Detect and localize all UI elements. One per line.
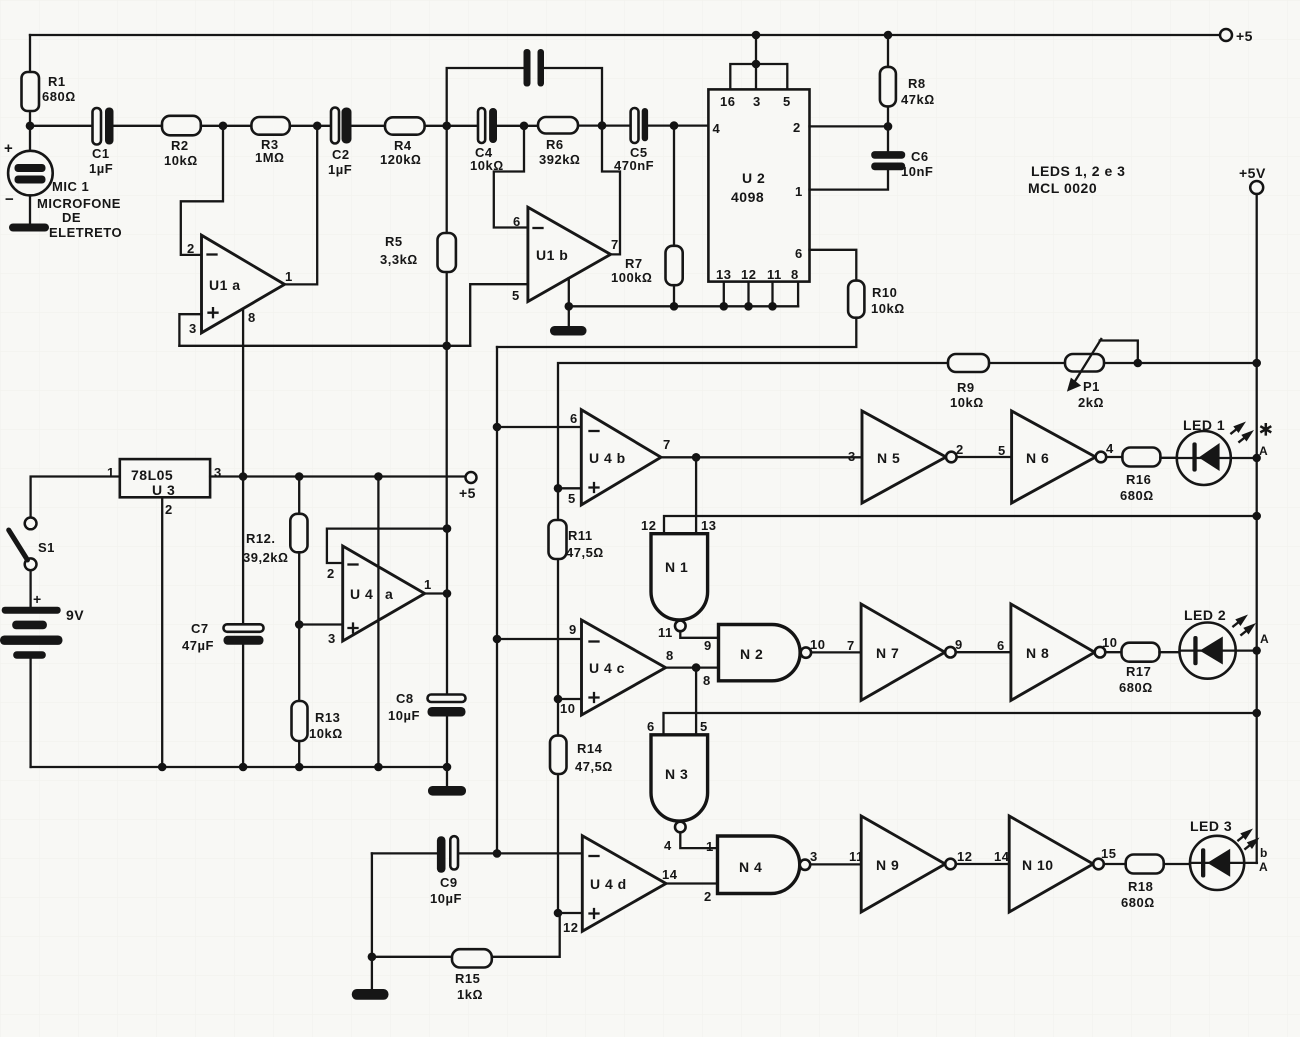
wire: bus2 y=516 (N1 pin12 to +5V rail) [664,516,1257,534]
resistor R5 [380,126,456,346]
wire: U1a pin8 to +5 [242,309,244,477]
svg-text:N 4: N 4 [739,859,762,875]
node U4b pin6 junction [493,423,502,432]
svg-text:C8: C8 [396,691,414,706]
svg-text:C9: C9 [440,875,458,890]
wire: U1b pin5 to reference line [470,284,528,346]
NAND N4 [704,836,818,904]
svg-text:12: 12 [563,920,578,935]
wire: +5V right rail [1256,194,1258,863]
wire: R18 to LED3 [1164,863,1190,865]
svg-text:11: 11 [658,625,673,640]
op-amp U1a [187,235,293,336]
wire: U2 pin2 to R8/C6 [810,125,889,127]
wire: U4b pin5 stub [558,487,581,489]
svg-text:A: A [1260,632,1269,646]
svg-text:15: 15 [1101,846,1116,861]
svg-text:−: − [5,191,14,208]
node pin12 ground [744,302,753,311]
svg-text:6: 6 [570,411,578,426]
node U3 pin2 ground [158,763,167,772]
LED3 [1190,818,1268,890]
node R13 ground [295,763,304,772]
wire: U4d pin12 stub [558,912,582,914]
svg-text:+5: +5 [1236,28,1253,44]
node +5 rail / R8 [884,31,893,40]
svg-text:N 6: N 6 [1026,450,1049,466]
svg-text:10nF: 10nF [901,164,933,179]
svg-text:C6: C6 [911,149,929,164]
node C7 ground [239,763,248,772]
node U4b output / N1 pin13 [692,453,701,462]
node threshold bus / +5V rail [1252,359,1261,368]
svg-text:R11: R11 [568,528,593,543]
svg-text:6: 6 [513,214,521,229]
svg-text:1kΩ: 1kΩ [457,987,483,1002]
wire: threshold bus y=363 (left corner) [558,363,1257,488]
svg-text:R14: R14 [577,741,603,756]
potentiometer P1 [1065,339,1138,410]
resistor R12 [243,477,308,625]
svg-text:C1: C1 [92,146,110,161]
wire: U4a output stub [425,592,447,594]
svg-text:1: 1 [107,465,115,480]
wire: main signal line y=126 [30,124,708,127]
svg-text:47kΩ: 47kΩ [901,92,935,107]
svg-text:R4: R4 [394,138,412,153]
IC U2 4098 [708,89,809,282]
LED1 [1177,417,1272,485]
svg-text:R2: R2 [171,138,189,153]
node x378 ground [374,763,383,772]
node R7 bottom / ground bus [670,302,679,311]
svg-text:9: 9 [704,638,712,653]
node +5 rail / U2 feed [752,31,761,40]
svg-text:N 1: N 1 [665,559,688,575]
inverter N9 [849,816,972,912]
wire: N3 pin5 drop [695,668,697,735]
svg-text:78L05: 78L05 [131,467,173,483]
svg-text:14: 14 [662,867,678,882]
inverter N7 [847,604,963,700]
ground (below U1b) [550,326,587,336]
op-amp U4c [560,620,674,716]
resistor R11 [549,488,604,699]
svg-text:U1 a: U1 a [209,277,241,293]
node R4/C4/C3/R5 junction [442,122,451,131]
svg-text:A: A [1259,444,1268,458]
svg-text:U 4: U 4 [350,586,373,602]
svg-text:12: 12 [641,518,656,533]
node R5 bottom / reference junction [442,342,451,351]
svg-text:1: 1 [795,184,803,199]
wire: N4 output to N9 [810,863,861,865]
resistor R16 [1120,448,1160,504]
resistor R13 [292,625,343,768]
svg-text:392kΩ: 392kΩ [539,152,580,167]
wire: C9 left leg to R15 [371,853,373,956]
node U4c pin10 junction [554,695,563,704]
svg-text:8: 8 [666,648,674,663]
svg-text:2kΩ: 2kΩ [1078,395,1104,410]
svg-text:MCL 0020: MCL 0020 [1028,180,1097,196]
node U4a feedback junction [443,524,452,533]
capacitor C9 [372,836,582,906]
wire: N6 to R16 [1106,456,1122,458]
wire: U1b output + feedback to R6/C5 node [602,126,620,255]
svg-text:47,5Ω: 47,5Ω [566,545,604,560]
svg-text:8: 8 [248,310,256,325]
svg-text:47µF: 47µF [182,638,214,653]
node R1/mic/C1 junction [26,122,35,131]
wire: reference vertical x=447 [446,346,449,695]
svg-text:1µF: 1µF [328,162,352,177]
svg-text:+: + [4,140,13,157]
capacitor C6 [810,126,934,189]
svg-text:680Ω: 680Ω [1121,895,1155,910]
svg-text:R8: R8 [908,76,926,91]
wire: U2 pin6 to R10 [810,250,857,281]
svg-text:R10: R10 [872,285,897,300]
capacitor C2 [328,108,352,178]
svg-text:2: 2 [187,241,195,256]
wire: U4c pin9 stub [497,638,582,640]
svg-text:U 4 c: U 4 c [589,660,625,676]
svg-text:10kΩ: 10kΩ [309,726,343,741]
svg-text:680Ω: 680Ω [1120,488,1154,503]
node R2/R3 junction [219,122,228,131]
wire: U2 pins 16/3/5 bracket to +5 rail [730,35,787,89]
svg-text:R7: R7 [625,256,643,271]
svg-text:6: 6 [647,719,655,734]
wire: U3 pin3 +5 line [210,475,465,477]
wire: U1b pin6 loop from C4 node [494,126,528,228]
IC U3 78L05 [107,459,222,517]
svg-text:2: 2 [793,120,801,135]
wire: U4b pin6 stub [497,426,581,428]
ground (below R15 node) [352,957,389,1000]
node R12 / +5 [295,472,304,481]
svg-text:2: 2 [327,566,335,581]
svg-text:120kΩ: 120kΩ [380,152,421,167]
svg-text:10: 10 [560,701,575,716]
svg-text:11: 11 [767,267,782,282]
wire: U4a pin3 stub [299,623,343,625]
wire: U2 bottom pin stubs [724,282,798,307]
node U4c output / N3 pin5 [692,663,701,672]
svg-text:8: 8 [791,267,799,282]
svg-text:C2: C2 [332,147,350,162]
wire: U1a pin3 to reference line [179,314,201,346]
svg-text:P1: P1 [1083,379,1100,394]
svg-text:C7: C7 [191,621,209,636]
svg-text:R17: R17 [1126,664,1151,679]
node U1b ground junction [565,302,574,311]
node R3/C2 junction [313,122,322,131]
svg-text:R15: R15 [455,971,480,986]
wire: U4b output row1 [661,456,862,458]
wire: ground bus y=306 under U2 [569,305,798,307]
node pin11 ground [768,302,777,311]
resistor R2 [162,116,201,168]
resistor R14 [550,699,613,913]
svg-text:12: 12 [957,849,972,864]
svg-text:N 5: N 5 [877,450,900,466]
svg-text:47,5Ω: 47,5Ω [575,759,613,774]
svg-text:U 3: U 3 [152,482,175,498]
svg-text:2: 2 [704,889,712,904]
resistor R18 [1121,855,1164,911]
svg-text:5: 5 [783,94,791,109]
svg-text:MIC 1: MIC 1 [52,179,89,194]
terminal +5 (mid) [459,472,477,501]
svg-text:39,2kΩ: 39,2kΩ [243,550,289,565]
inverter N5 [848,411,964,503]
svg-text:R18: R18 [1128,879,1153,894]
inverter N8 [997,604,1117,700]
wire: U1b ground stub [568,278,570,326]
svg-text:1: 1 [706,839,714,854]
resistor R6 [538,117,580,167]
svg-text:U 2: U 2 [742,170,765,186]
wire: N1 output to N2 pin9 [680,631,718,638]
svg-text:3: 3 [214,465,222,480]
svg-text:7: 7 [663,437,671,452]
svg-text:7: 7 [611,237,619,252]
svg-text:LED 2: LED 2 [1184,607,1226,623]
op-amp U4d [563,836,678,935]
wire: N1 pin13 drop [695,457,697,533]
svg-text:6: 6 [997,638,1005,653]
svg-text:R13: R13 [315,710,340,725]
svg-text:13: 13 [701,518,716,533]
svg-text:N 9: N 9 [876,857,899,873]
svg-text:9V: 9V [66,607,84,623]
svg-text:5: 5 [700,719,708,734]
resistor R8 [880,35,935,126]
svg-text:10: 10 [1102,635,1117,650]
svg-text:3: 3 [753,94,761,109]
wire: bus3 y=713 (N3 pin6 to +5V rail) [664,713,1257,735]
node pin13 ground [720,302,729,311]
capacitor C5 [614,108,654,173]
svg-text:a: a [385,586,393,602]
svg-text:3: 3 [328,631,336,646]
svg-text:3,3kΩ: 3,3kΩ [380,252,418,267]
svg-text:9: 9 [955,637,963,652]
resistor R15 [372,913,560,1002]
node pin2/R8/C6 junction [884,122,893,131]
wire: U4a pin2 feedback loop [327,529,447,563]
svg-text:2: 2 [956,442,964,457]
capacitor C4 [470,108,504,173]
svg-text:14: 14 [994,849,1010,864]
svg-text:4098: 4098 [731,189,764,205]
svg-text:b: b [1260,846,1268,860]
svg-text:R1: R1 [48,74,66,89]
wire: N2 output to N7 [811,651,861,653]
svg-text:A: A [1259,860,1268,874]
wire: N3 output to N4 pin1 [680,832,717,848]
svg-text:10kΩ: 10kΩ [950,395,984,410]
svg-text:4: 4 [1106,441,1114,456]
svg-text:N 3: N 3 [665,766,688,782]
svg-text:10: 10 [810,637,825,652]
wire: U4d output to N4 pin2 [666,882,718,884]
svg-text:R12.: R12. [246,531,275,546]
resistor R7 [611,126,683,307]
node U4c pin9 junction [493,635,502,644]
node LED2 / +5V rail [1253,646,1261,654]
node C4/R6/U1b-pin6 junction [520,122,529,131]
capacitor C8 [388,691,466,767]
microphone MIC1 [4,126,122,240]
svg-text:S1: S1 [38,540,55,555]
node C7 line / +5 [239,472,248,481]
terminal +5 (top right) [1220,28,1253,44]
svg-text:10kΩ: 10kΩ [164,153,198,168]
svg-text:10µF: 10µF [430,891,462,906]
svg-text:R5: R5 [385,234,403,249]
wire: N9 to N10 [956,863,1009,865]
wire: +5 to ground crossover line x=378 [377,477,379,768]
wire: U4c pin10 stub [558,698,582,700]
svg-text:1: 1 [424,577,432,592]
node C5/R7/U2-pin4 junction [670,121,679,130]
wire: R16 to LED1 [1160,457,1177,459]
svg-text:5: 5 [568,491,576,506]
svg-text:ELETRETO: ELETRETO [49,225,122,240]
svg-text:+5V: +5V [1239,165,1266,181]
svg-text:1µF: 1µF [89,161,113,176]
node U2 bracket feed [752,60,761,69]
svg-text:6: 6 [795,246,803,261]
switch S1 [9,518,55,571]
wire: U4c output row2 [666,666,719,668]
node x378 / +5 [374,472,383,481]
svg-text:12: 12 [741,267,756,282]
capacitor C3 (unlabeled, top) [447,49,602,126]
wire: reference line y=346 (U4a output net) [179,345,470,347]
battery 9V [0,570,84,767]
svg-text:2: 2 [165,502,173,517]
svg-text:LED 3: LED 3 [1190,818,1232,834]
capacitor C1 [89,108,114,177]
ground (below C8) [428,767,466,796]
svg-text:MICROFONE: MICROFONE [37,196,121,211]
svg-text:4: 4 [713,121,721,136]
svg-text:10kΩ: 10kΩ [871,301,905,316]
node U4a output junction [443,589,452,598]
svg-text:U1 b: U1 b [536,247,568,263]
svg-text:R9: R9 [957,380,975,395]
svg-text:LEDS 1, 2 e 3: LEDS 1, 2 e 3 [1031,163,1125,179]
node U4b pin5 junction [554,484,563,493]
svg-text:16: 16 [720,94,735,109]
svg-text:+5: +5 [459,485,476,501]
wire: N10 to R18 [1104,863,1126,865]
resistor R3 [251,117,289,165]
node P1 wiper junction [1134,359,1143,368]
svg-text:N 8: N 8 [1026,645,1049,661]
op-amp U4b [568,410,671,506]
svg-text:10µF: 10µF [388,708,420,723]
node R15 ground junction [368,953,377,962]
wire: N7 to N8 [956,651,1011,653]
svg-text:R6: R6 [546,137,564,152]
inverter N6 [998,411,1114,503]
svg-text:U 4 d: U 4 d [590,876,627,892]
svg-text:100kΩ: 100kΩ [611,270,652,285]
NAND N3 [647,719,708,853]
node bus3 / +5V rail [1252,709,1261,718]
wire: N5 to N6 [957,456,1012,458]
node LED1 / +5V rail [1253,454,1261,462]
wire: N8 to R17 [1105,651,1121,653]
resistor R17 [1119,643,1160,695]
wire: U1a output to R3/C2 node [285,126,318,285]
node R12/R13/U4a pin3 junction [295,620,304,629]
wire: R17 to LED2 [1160,651,1181,653]
LED2 [1180,607,1270,679]
svg-text:DE: DE [62,210,81,225]
svg-text:9: 9 [569,622,577,637]
svg-text:N 2: N 2 [740,646,763,662]
NAND N2 [703,625,825,689]
svg-text:U 4 b: U 4 b [589,450,626,466]
label LEDS note [1028,163,1125,196]
wire: U1a pin2 feedback from R2/R3 node [181,126,223,255]
svg-text:8: 8 [703,673,711,688]
wire: +5 top rail [30,34,1220,36]
svg-text:5: 5 [998,443,1006,458]
op-amp U4a [327,546,432,646]
svg-text:4: 4 [664,838,672,853]
svg-text:680Ω: 680Ω [1119,680,1153,695]
svg-text:3: 3 [810,849,818,864]
wire: signal vertical x=497 (R10 to U4 inverting inputs) [496,347,498,853]
svg-text:13: 13 [716,267,731,282]
node C9 / U4d junction [493,849,502,858]
op-amp U1b [512,207,619,303]
ground (below MIC1) [9,224,49,232]
resistor R4 [380,117,425,167]
capacitor C7 [182,477,264,768]
wire: U3 pin2 down to ground bus [161,497,163,767]
svg-text:3: 3 [848,449,856,464]
NAND N1 [641,518,716,640]
node R6/C5/C3/feedback junction [598,121,607,130]
resistor R10 [848,281,905,318]
svg-text:1: 1 [285,269,293,284]
svg-text:680Ω: 680Ω [42,89,76,104]
svg-text:1MΩ: 1MΩ [255,150,285,165]
svg-text:N 7: N 7 [876,645,899,661]
svg-text:+: + [33,591,42,607]
terminal +5V (right) [1239,165,1266,194]
node U4d pin12 junction [554,909,563,918]
wire: ground bus bottom y=767 [31,766,447,768]
node C8 ground junction [443,763,452,772]
wire: R10 bottom to comparator input rail [497,318,856,347]
node bus2 / +5V rail [1252,512,1261,521]
svg-text:3: 3 [189,321,197,336]
inverter N10 [994,816,1116,912]
resistor R9 [948,354,989,410]
resistor R1 [22,35,76,126]
wire: U3 pin1 to S1 [31,477,120,518]
svg-text:5: 5 [512,288,520,303]
